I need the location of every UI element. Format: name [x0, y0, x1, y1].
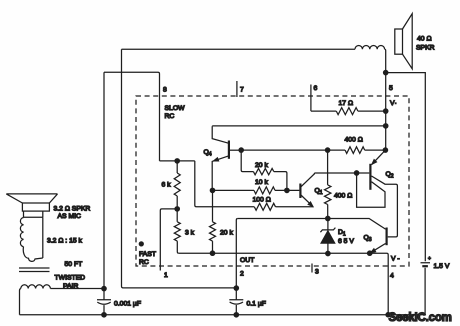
- node: D1 bottom on V-: [326, 251, 330, 255]
- wire: V- emitter line: [179, 253, 388, 315]
- node: 400v bottom/D1 top: [326, 216, 330, 220]
- transistor Q3 (mirrored): [370, 228, 387, 254]
- node: 6k bottom / 3k top / pin1: [175, 207, 179, 211]
- svg-text:RC: RC: [165, 113, 175, 120]
- svg-text:4: 4: [390, 273, 394, 280]
- wire: 20k(upper) from base tap: [241, 150, 253, 172]
- svg-text:RC: RC: [139, 259, 149, 266]
- label FAST RC with bullet: [139, 242, 143, 246]
- pin 7 stub: [236, 81, 238, 97]
- wire: 6k-top net down bypass to 100ohm: [195, 161, 255, 207]
- wire: V+ vertical pin5 down: [385, 73, 387, 150]
- svg-text:+: +: [428, 256, 431, 262]
- svg-text:17 Ω: 17 Ω: [339, 100, 354, 107]
- zener diode D1 6.5V: [320, 219, 335, 254]
- IC dashed box: [136, 96, 409, 266]
- inductor L1 (choke to 40ohm speaker): [355, 46, 385, 50]
- transistor Q4: [212, 127, 241, 191]
- label 40 ohm SPKR: [416, 36, 435, 52]
- wire: top output line to coil: [122, 48, 356, 50]
- mic speaker 3.2 ohm: [6, 194, 57, 211]
- wire: speaker bottom terminal to right rail: [386, 73, 426, 260]
- wire: coil corner down to V+ node: [385, 49, 386, 72]
- node: 17 right: [384, 109, 388, 113]
- svg-text:2: 2: [240, 271, 244, 278]
- transformer core: [19, 268, 50, 272]
- transistor Q1: [300, 173, 314, 207]
- svg-text:AS MIC: AS MIC: [58, 213, 82, 220]
- node: cap 0.001 top: [102, 286, 106, 290]
- svg-text:20 k: 20 k: [255, 162, 268, 169]
- svg-text:Q1: Q1: [315, 188, 323, 197]
- wire: left vertical from top line down to OUT return (x=121): [122, 49, 237, 288]
- resistor 100: [254, 203, 275, 210]
- svg-text:Q4: Q4: [204, 149, 212, 158]
- node: pin2/OUT coupling top: [234, 286, 238, 290]
- wire: Q1 collector to Q2 base: [314, 172, 369, 174]
- svg-text:3: 3: [315, 269, 319, 276]
- resistor 400 horizontal: [328, 149, 386, 151]
- transistor Q2: [357, 150, 398, 237]
- svg-text:TWISTED: TWISTED: [55, 275, 86, 282]
- resistor 10k: [213, 189, 300, 191]
- node: cap 0.001 bottom on rail: [102, 313, 106, 317]
- speaker SPKR 40ohm (driver + cone): [395, 14, 412, 69]
- svg-text:3.2 Ω SPKR: 3.2 Ω SPKR: [54, 206, 91, 213]
- resistor 17 ohm: [311, 110, 386, 112]
- svg-text:6 k: 6 k: [162, 182, 172, 189]
- svg-text:D1: D1: [338, 229, 346, 238]
- svg-text:0.001 μF: 0.001 μF: [114, 301, 141, 308]
- label D1 6.5V: [338, 229, 354, 245]
- node: Q2 emitter / V+: [383, 148, 387, 152]
- svg-text:40 Ω: 40 Ω: [417, 36, 432, 43]
- transformer primary winding (vertical): [20, 211, 42, 261]
- wire: 6k bottom to pin 1: [160, 209, 177, 271]
- wire: Q4e vertical down to 20k lower: [212, 190, 214, 221]
- pin 3 stub: [311, 264, 313, 273]
- svg-text:400 Ω: 400 Ω: [345, 137, 363, 144]
- svg-text:Q3: Q3: [364, 235, 372, 244]
- node: 20k bottom on V-: [210, 251, 214, 255]
- svg-text:100 Ω: 100 Ω: [253, 197, 271, 204]
- svg-text:Q2: Q2: [386, 171, 394, 180]
- svg-text:FAST: FAST: [139, 251, 156, 258]
- resistor 3k: [174, 222, 180, 241]
- node: Q2 base tap: [354, 171, 358, 175]
- svg-text:400 Ω: 400 Ω: [334, 193, 352, 200]
- svg-text:V·: V·: [390, 100, 397, 107]
- resistor 400 vertical: [327, 150, 329, 185]
- node: Q4 base tap: [239, 148, 243, 152]
- svg-text:7: 7: [240, 87, 244, 94]
- svg-text:5: 5: [389, 85, 393, 92]
- svg-text:SeekIC.com: SeekIC.com: [389, 312, 452, 324]
- wire: secondary left down to ground rail: [20, 289, 21, 315]
- node: 10k right / Q1 base: [285, 188, 289, 192]
- wire: left vertical x=103.5 (slow RC net): [103, 72, 105, 288]
- svg-text:SLOW: SLOW: [165, 105, 186, 112]
- wire: base rail y=149.6: [241, 149, 327, 151]
- svg-text:6: 6: [314, 85, 318, 92]
- wire: second line y=71.8 to pin 8: [104, 72, 160, 161]
- ground rail: [20, 314, 426, 316]
- capacitor 0.1uF: [229, 288, 243, 315]
- label 3.2 SPKR AS MIC: [54, 206, 91, 221]
- node: 0.1 bottom on rail: [234, 313, 238, 317]
- node: 400v top: [325, 148, 329, 152]
- battery 1.5V: [421, 256, 432, 315]
- node: coil/speaker/pin5 junction: [384, 70, 388, 74]
- svg-text:1: 1: [164, 272, 168, 279]
- svg-text:V -: V -: [391, 256, 400, 263]
- pin 6 stub: [310, 85, 312, 112]
- node: Q4 emitter / 10k left: [210, 188, 214, 192]
- svg-text:OUT: OUT: [240, 257, 254, 264]
- label 50 FT TWISTED PAIR: [55, 261, 86, 290]
- wire: pin8 internal to 6k top rail: [160, 160, 195, 162]
- node: pin4 on rail: [386, 313, 390, 317]
- transformer secondary winding (horizontal): [21, 285, 51, 289]
- svg-text:3.2 Ω : 15 k: 3.2 Ω : 15 k: [47, 238, 83, 245]
- wire: Q4 collector rail to V+: [212, 126, 386, 127]
- resistor 6k: [174, 173, 180, 196]
- svg-text:8: 8: [163, 87, 167, 94]
- node: Q4 collector at V+ stack: [384, 124, 388, 128]
- wire: OUT line / 400v bottom / D1 top / Q3 collector: [238, 219, 386, 230]
- resistor 20k lower: [210, 222, 216, 241]
- svg-text:0.1 μF: 0.1 μF: [247, 301, 266, 308]
- svg-text:1.5 V: 1.5 V: [434, 263, 450, 270]
- node: 6k top: [175, 159, 179, 163]
- node: Q3 emitter on V-: [368, 251, 372, 255]
- svg-text:6 5 V: 6 5 V: [338, 238, 354, 245]
- svg-text:3 k: 3 k: [185, 230, 195, 237]
- svg-text:10 k: 10 k: [255, 179, 268, 186]
- svg-text:20 k: 20 k: [220, 230, 233, 237]
- resistor 20k upper: [253, 168, 273, 174]
- svg-text:SPKR: SPKR: [416, 44, 435, 51]
- capacitor 0.001uF: [97, 289, 111, 315]
- label SLOW RC: [165, 105, 186, 120]
- wire: secondary right to cap node: [50, 288, 104, 290]
- wire: OUT corner down pin 2: [236, 219, 238, 289]
- svg-text:50 FT: 50 FT: [65, 261, 83, 268]
